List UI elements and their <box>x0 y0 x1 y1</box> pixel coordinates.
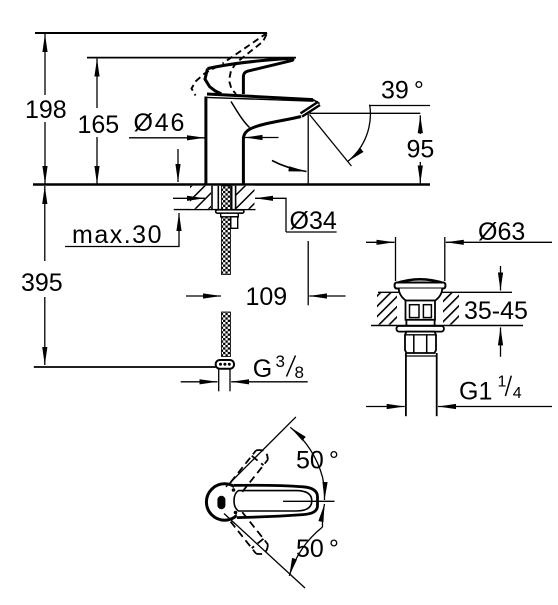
deck counter top line <box>33 183 430 185</box>
handle lever solid <box>208 58 293 94</box>
drain cap dome <box>396 279 445 283</box>
dimension 165 extension line <box>87 57 296 59</box>
faucet spout top surface <box>206 94 314 101</box>
drain deck hatch right <box>443 293 459 325</box>
top view lever outline <box>234 485 318 517</box>
dimension G3/8 arrows <box>181 381 308 383</box>
top view angle line lower <box>224 514 305 589</box>
dimension 395 bottom reference line <box>34 366 216 368</box>
svg-text:8: 8 <box>295 363 304 382</box>
drain cap rim <box>395 283 446 289</box>
top view dots <box>232 488 238 514</box>
supply hose upper checkered <box>222 186 231 275</box>
deck hatch right of shank <box>236 186 255 209</box>
dimension 198 vertical line with arrows <box>44 34 46 184</box>
drain washer below deck <box>397 326 444 332</box>
top view pivot circle <box>206 484 242 520</box>
svg-text:395: 395 <box>21 269 63 297</box>
drain body in deck <box>406 301 436 320</box>
svg-text:Ø63: Ø63 <box>478 218 525 246</box>
svg-text:109: 109 <box>246 283 288 311</box>
dimension 395 vertical line with arrows <box>44 186 46 365</box>
spout angle line <box>310 115 352 167</box>
dimension 95 vertical line with arrows <box>419 115 421 183</box>
drain D63 extension lines <box>396 237 445 281</box>
shank right wall <box>232 186 236 210</box>
dimension 165 text <box>78 111 120 139</box>
drain body neck stubs <box>406 320 434 326</box>
svg-text:max.30: max.30 <box>72 221 163 249</box>
dimension D34 text <box>290 207 337 235</box>
svg-text:165: 165 <box>78 111 120 139</box>
dimension 165 vertical line with arrows <box>96 59 98 184</box>
faucet body inner fillet curve <box>231 102 250 128</box>
dimension 395 text <box>21 269 63 297</box>
svg-text:50 °: 50 ° <box>296 535 339 563</box>
svg-text:35-45: 35-45 <box>464 297 528 325</box>
dimension D34 underline <box>286 231 337 233</box>
dimension 39deg arc with arrow <box>348 105 370 162</box>
drain tailpipe <box>406 353 437 416</box>
dimension max.30 text <box>72 221 163 249</box>
faucet body outline <box>206 97 301 185</box>
dimension 35-45 arrows <box>500 266 502 357</box>
svg-text:4: 4 <box>513 385 522 402</box>
drain hex nut <box>405 332 436 353</box>
svg-text:Ø46: Ø46 <box>134 109 187 137</box>
dimension 50deg lower text <box>296 535 339 563</box>
dimension 198 extension line top <box>35 32 267 34</box>
spout tip vertical extension line upper <box>307 114 309 184</box>
svg-text:95: 95 <box>407 135 435 163</box>
drain body flare <box>399 289 442 301</box>
top view dashed lever down <box>231 512 271 557</box>
svg-text:39 °: 39 ° <box>381 77 424 105</box>
dimension D63 text <box>478 218 525 246</box>
faucet spout tip face <box>313 100 320 104</box>
dimension 109 text <box>246 283 288 311</box>
dimension 95 reference line <box>310 112 421 114</box>
top view 50deg arc upper <box>290 427 324 500</box>
top view centerline <box>283 500 335 502</box>
mounting nut lower step <box>231 217 238 229</box>
handle cap solid <box>205 69 221 94</box>
top view angle line upper <box>226 417 296 487</box>
handle raised dashed outline <box>192 33 268 96</box>
dimension 50deg upper text <box>296 447 339 475</box>
svg-text:G: G <box>253 355 272 383</box>
svg-text:G1: G1 <box>459 378 492 406</box>
hose end fitting <box>216 360 234 369</box>
faucet aerator thick edge <box>301 102 321 117</box>
dimension D46 text <box>134 109 187 137</box>
dimension G1 1/4 text <box>459 374 522 406</box>
spout tip vertical extension line lower <box>307 241 309 305</box>
deck hatch left of shank <box>190 186 211 209</box>
svg-text:198: 198 <box>25 96 67 124</box>
dimension D46 leader arrow left <box>129 137 205 139</box>
dimension max.30 leader underline <box>65 213 179 247</box>
dimension 109 arrows <box>186 295 346 297</box>
supply hose lower checkered <box>222 312 231 357</box>
top view lever inner line <box>234 491 312 512</box>
dimension G1 1/4 arrows <box>366 406 552 408</box>
dimension D46 arrow right inner <box>245 137 279 139</box>
svg-text:50 °: 50 ° <box>296 447 339 475</box>
hose end tube <box>219 369 230 392</box>
dimension D63 arrows <box>366 241 552 243</box>
top view handle front black mark <box>217 496 225 509</box>
drain deck bottom line <box>371 325 523 327</box>
dimension G3/8 text <box>253 352 304 383</box>
drain deck hatch left <box>377 293 397 325</box>
dimension 39deg text <box>381 77 424 105</box>
svg-text:Ø34: Ø34 <box>290 207 337 235</box>
dimension 95 text <box>407 135 435 163</box>
svg-text:3: 3 <box>276 352 285 371</box>
dimension D34 arrows <box>173 198 286 232</box>
svg-text:1: 1 <box>498 374 507 391</box>
washer under deck <box>216 210 244 213</box>
dimension 198 text <box>25 96 67 124</box>
lever motion curved arrow <box>272 161 307 172</box>
dimension 35-45 text <box>464 297 528 325</box>
dimension max.30 upper arrow <box>177 149 179 182</box>
drain deck top line <box>378 291 512 293</box>
mounting nut <box>221 213 239 217</box>
top view 50deg arc lower <box>289 504 324 576</box>
shank left wall <box>212 186 218 210</box>
dimension 39deg reference line <box>369 105 430 107</box>
top view dashed lever up <box>231 447 271 492</box>
deck bottom line <box>174 209 256 211</box>
